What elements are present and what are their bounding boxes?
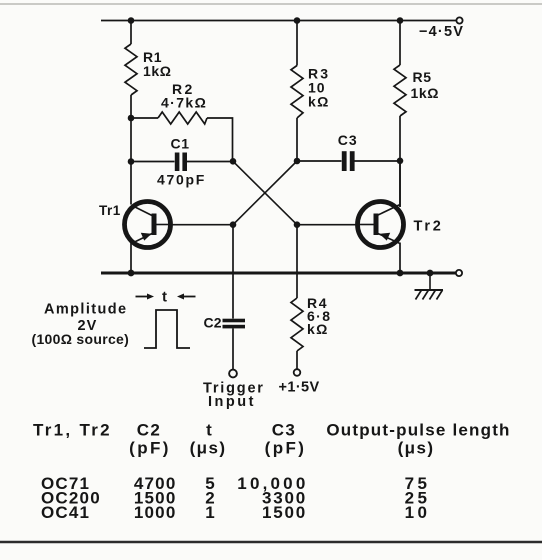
svg-text:1500: 1500 <box>262 503 307 522</box>
wire: rail to R3 <box>296 21 298 66</box>
svg-text:Tr1, Tr2: Tr1, Tr2 <box>33 421 112 440</box>
svg-text:1000: 1000 <box>134 503 177 522</box>
svg-text:kΩ: kΩ <box>308 94 330 110</box>
svg-text:−4·5V: −4·5V <box>419 24 464 40</box>
node: Tr2 base / R4 junction <box>294 221 301 228</box>
capacitor C1 <box>175 153 187 172</box>
wire: Tr2 base to node <box>297 224 358 226</box>
svg-text:(100Ω source): (100Ω source) <box>32 331 130 347</box>
wire: R4 to +1.5V terminal <box>296 351 298 369</box>
wire: cross-coupling diagonal (C1 node to Tr2 base node) <box>233 161 297 224</box>
svg-text:OC41: OC41 <box>41 503 90 522</box>
wire: Tr1 base node down to C2 (crosses rail) <box>232 225 234 319</box>
terminal: +1.5V <box>294 369 301 376</box>
svg-text:Amplitude: Amplitude <box>44 302 128 318</box>
wire: rail to R1 <box>130 21 132 45</box>
wire: Tr2 emitter to rail <box>399 243 401 274</box>
wire: C2 to trigger terminal <box>232 328 234 369</box>
wire: R2 right to drop <box>207 118 233 161</box>
node: R3 / supply rail <box>294 17 301 24</box>
svg-text:470pF: 470pF <box>157 172 206 188</box>
wire: R5 to Tr2 collector <box>399 116 401 207</box>
svg-text:kΩ: kΩ <box>307 321 329 337</box>
svg-text:t: t <box>206 421 212 440</box>
node: C3/R5/collector Tr2 junction <box>397 158 404 165</box>
wire: C1 right lead <box>187 161 233 163</box>
svg-text:C3: C3 <box>272 421 297 440</box>
scan rule bottom <box>0 541 542 543</box>
ground <box>415 273 444 300</box>
transistor Tr1 <box>125 202 171 248</box>
wire: R1 to collector node A <box>130 95 132 205</box>
svg-text:1kΩ: 1kΩ <box>411 85 440 101</box>
scan rule top <box>0 3 542 5</box>
node: C1/R2 right junction <box>230 158 237 165</box>
wire: Tr1 emitter to rail <box>130 243 132 273</box>
terminal: -4.5V supply <box>456 17 462 23</box>
wire: C3 right lead <box>355 160 401 162</box>
svg-text:C1: C1 <box>171 136 190 152</box>
wire: C1 left lead <box>131 161 175 163</box>
svg-text:(pF): (pF) <box>129 439 171 458</box>
wire: Tr2 collector lead <box>399 161 401 207</box>
resistor R5 <box>394 65 406 116</box>
svg-text:Input: Input <box>208 394 256 410</box>
svg-text:C3: C3 <box>338 132 358 148</box>
svg-text:t: t <box>162 289 167 306</box>
node: C1 left junction <box>128 158 135 165</box>
svg-text:+1·5V: +1·5V <box>279 380 320 396</box>
wire: C3 left lead <box>297 160 342 162</box>
svg-text:Output-pulse length: Output-pulse length <box>326 421 510 440</box>
pulse width arrow right <box>177 294 196 300</box>
pulse width arrow left <box>136 294 155 300</box>
svg-text:(μs): (μs) <box>190 439 227 458</box>
svg-text:(pF): (pF) <box>265 439 307 458</box>
node: Tr1 base / trigger junction <box>230 221 237 228</box>
node: R1 / supply rail <box>128 17 135 24</box>
svg-text:10: 10 <box>405 503 431 522</box>
wire: rail to R5 <box>399 21 401 66</box>
wire: -4.5V supply rail <box>101 20 457 22</box>
node: R1/R2 junction <box>128 115 135 122</box>
wire: Tr1 base to node <box>171 224 234 226</box>
svg-text:1kΩ: 1kΩ <box>143 63 172 79</box>
node: Tr1 emitter on rail <box>128 270 135 277</box>
capacitor C3 <box>342 151 355 171</box>
resistor R4 <box>291 298 303 351</box>
resistor R3 <box>291 66 303 119</box>
wire: node to R2 left <box>131 117 158 119</box>
svg-text:Tr2: Tr2 <box>414 219 444 235</box>
transistor Tr2 <box>358 202 404 248</box>
resistor R1 <box>125 44 137 95</box>
svg-text:(μs): (μs) <box>398 439 435 458</box>
svg-text:R5: R5 <box>413 69 432 85</box>
svg-text:Tr1: Tr1 <box>99 203 121 218</box>
wire: Tr2 base node down to R4 (crosses rail) <box>296 225 298 298</box>
svg-text:1: 1 <box>205 503 214 522</box>
trigger pulse waveform <box>144 310 190 348</box>
node: ground tap on rail <box>427 270 434 277</box>
terminal: trigger input <box>229 370 237 378</box>
svg-text:4·7kΩ: 4·7kΩ <box>161 95 207 111</box>
node: Tr2 emitter on rail <box>397 270 404 277</box>
svg-text:C2: C2 <box>204 315 222 331</box>
node: R3/C3 junction <box>294 158 301 165</box>
wire: cross-coupling diagonal (Tr1 base node to R3 node) <box>233 161 297 225</box>
node: R5 / supply rail <box>397 17 404 24</box>
wire: R3 to node <box>296 118 298 161</box>
terminal: output (right end of ground rail) <box>456 270 462 276</box>
wire: ground rail (bottom) <box>101 272 456 275</box>
svg-text:C2: C2 <box>137 421 162 440</box>
capacitor C2 <box>223 319 246 329</box>
resistor R2 <box>158 112 207 124</box>
